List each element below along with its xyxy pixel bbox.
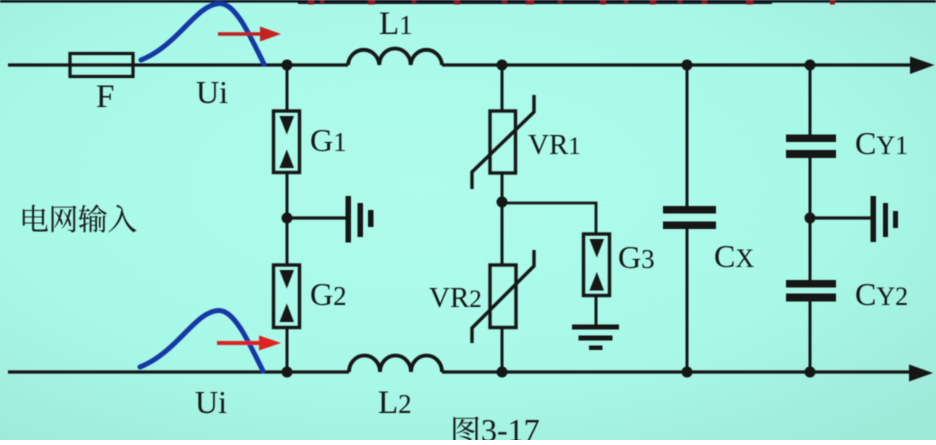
svg-text:G2: G2	[310, 276, 347, 312]
wire: mid node down to CY2	[809, 218, 812, 280]
wire: junction down to VR2	[501, 203, 504, 265]
svg-text:Ui: Ui	[196, 74, 228, 110]
ground (below G3)	[572, 325, 619, 330]
gas discharge tube G2	[274, 265, 300, 328]
node (bottom line, G2 tap)	[282, 367, 293, 378]
node (top line, CX tap)	[682, 60, 693, 71]
wire: G2 to bottom line	[286, 328, 289, 373]
fuse F	[70, 54, 133, 77]
node (bottom line, CX tap)	[682, 367, 693, 378]
svg-text:L1: L1	[379, 6, 413, 42]
red text fragments along top edge	[308, 0, 314, 5]
varistor VR1	[490, 111, 516, 173]
surge pulse waveform (bottom), blue	[140, 310, 263, 371]
ground (right, sideways)	[871, 196, 877, 242]
varistor VR2	[490, 265, 516, 328]
wire: VR1 to junction node	[501, 173, 504, 203]
svg-text:Ui: Ui	[195, 384, 227, 420]
wire: junction to G3 (over and down)	[502, 203, 596, 234]
wire: CY2 to bottom line	[809, 302, 812, 373]
wire to middle ground	[287, 216, 346, 219]
wire: top line down to CX	[686, 65, 689, 206]
svg-text:VR1: VR1	[528, 129, 581, 161]
node (top line, VR1 tap)	[497, 60, 508, 71]
wire: top line down to VR1	[501, 65, 504, 111]
top border strip (cropped text line)	[0, 0, 936, 3]
label 电网输入 (mains input)	[23, 205, 48, 232]
svg-text:CX: CX	[714, 238, 754, 274]
inductor L2	[349, 356, 442, 372]
wire: mid node down to G2	[286, 218, 289, 265]
svg-text:G3: G3	[618, 239, 655, 275]
wire: node A down to G1	[286, 65, 289, 111]
svg-text:VR2: VR2	[429, 282, 482, 314]
capacitor CX	[663, 206, 716, 214]
wire: top line down to CY1	[809, 65, 812, 135]
node (top line, CY1 tap)	[805, 60, 816, 71]
wire: CX to bottom line	[686, 229, 689, 372]
capacitor CY1	[786, 135, 836, 143]
wire: bottom line N, left segment up to L2	[8, 370, 349, 373]
surge direction arrow (bottom), red	[217, 341, 261, 345]
svg-text:G1: G1	[310, 122, 347, 158]
inductor L1	[348, 48, 442, 65]
wire: CY1 to mid node	[809, 158, 812, 218]
node (bottom line, CY2 tap)	[805, 367, 816, 378]
ground (middle, sideways)	[346, 196, 352, 243]
svg-text:3-17: 3-17	[481, 412, 540, 440]
wire: G3 to ground	[595, 296, 598, 327]
svg-text:CY1: CY1	[855, 125, 908, 161]
wire: VR2 to bottom line	[501, 328, 504, 373]
wire: top line L, left segment up to L1	[8, 63, 348, 66]
gas discharge tube G1	[274, 111, 300, 173]
wire: G1 to mid node	[286, 173, 289, 219]
node (bottom line, VR2 tap)	[497, 367, 508, 378]
wire to right ground	[810, 216, 871, 219]
wire: bottom line, L2 to right arrow	[442, 370, 910, 373]
capacitor CY2	[786, 280, 836, 288]
svg-text:L2: L2	[378, 385, 412, 421]
surge pulse waveform (top), blue	[141, 3, 264, 64]
arrowhead top-right output	[910, 57, 935, 75]
node A (top line, G1 tap)	[282, 60, 293, 71]
svg-text:F: F	[96, 79, 114, 115]
node: G1/G2 junction	[282, 213, 293, 224]
node: VR1/VR2/G3 junction	[497, 197, 508, 208]
node: CY1/CY2 junction	[805, 213, 816, 224]
svg-text:CY2: CY2	[855, 276, 908, 312]
arrowhead bottom-right output	[909, 365, 933, 382]
wire: top line, L1 to right arrow	[442, 63, 912, 66]
surge direction arrow (top), red	[218, 32, 262, 36]
caption 图3-17	[453, 417, 478, 445]
gas discharge tube G3	[584, 234, 610, 296]
